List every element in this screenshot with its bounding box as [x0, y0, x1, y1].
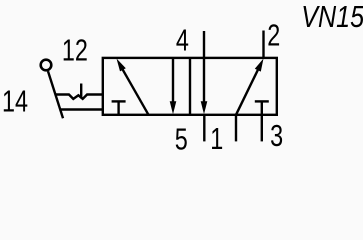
- lever knob: [41, 60, 52, 71]
- port 3 line: [261, 115, 263, 142]
- svg-text:2: 2: [267, 17, 280, 52]
- svg-text:4: 4: [176, 22, 189, 57]
- blocked port left box: [112, 101, 126, 114]
- svg-text:VN15: VN15: [301, 0, 363, 34]
- position divider: [189, 58, 191, 115]
- svg-text:3: 3: [270, 118, 283, 153]
- flow path 2-3 left box: [170, 58, 177, 114]
- valve body 5/2 positions: [103, 58, 277, 115]
- svg-text:12: 12: [62, 32, 88, 67]
- detent notched plate: [55, 95, 102, 99]
- svg-text:5: 5: [175, 121, 188, 156]
- port 1 line: [235, 115, 237, 142]
- flow path 4-5 right box: [201, 58, 208, 114]
- blocked port 3 right box: [255, 101, 269, 114]
- svg-text:1: 1: [210, 121, 223, 156]
- detent pin: [80, 84, 82, 99]
- svg-text:14: 14: [2, 83, 28, 118]
- flow path 1-4 left box: [117, 59, 149, 115]
- port 5 line: [203, 115, 205, 142]
- flow path 1-2 right box: [236, 59, 264, 115]
- port 2 line: [262, 31, 264, 58]
- detent base line: [60, 108, 103, 110]
- port 4 line: [203, 31, 205, 58]
- lever arm: [48, 71, 63, 118]
